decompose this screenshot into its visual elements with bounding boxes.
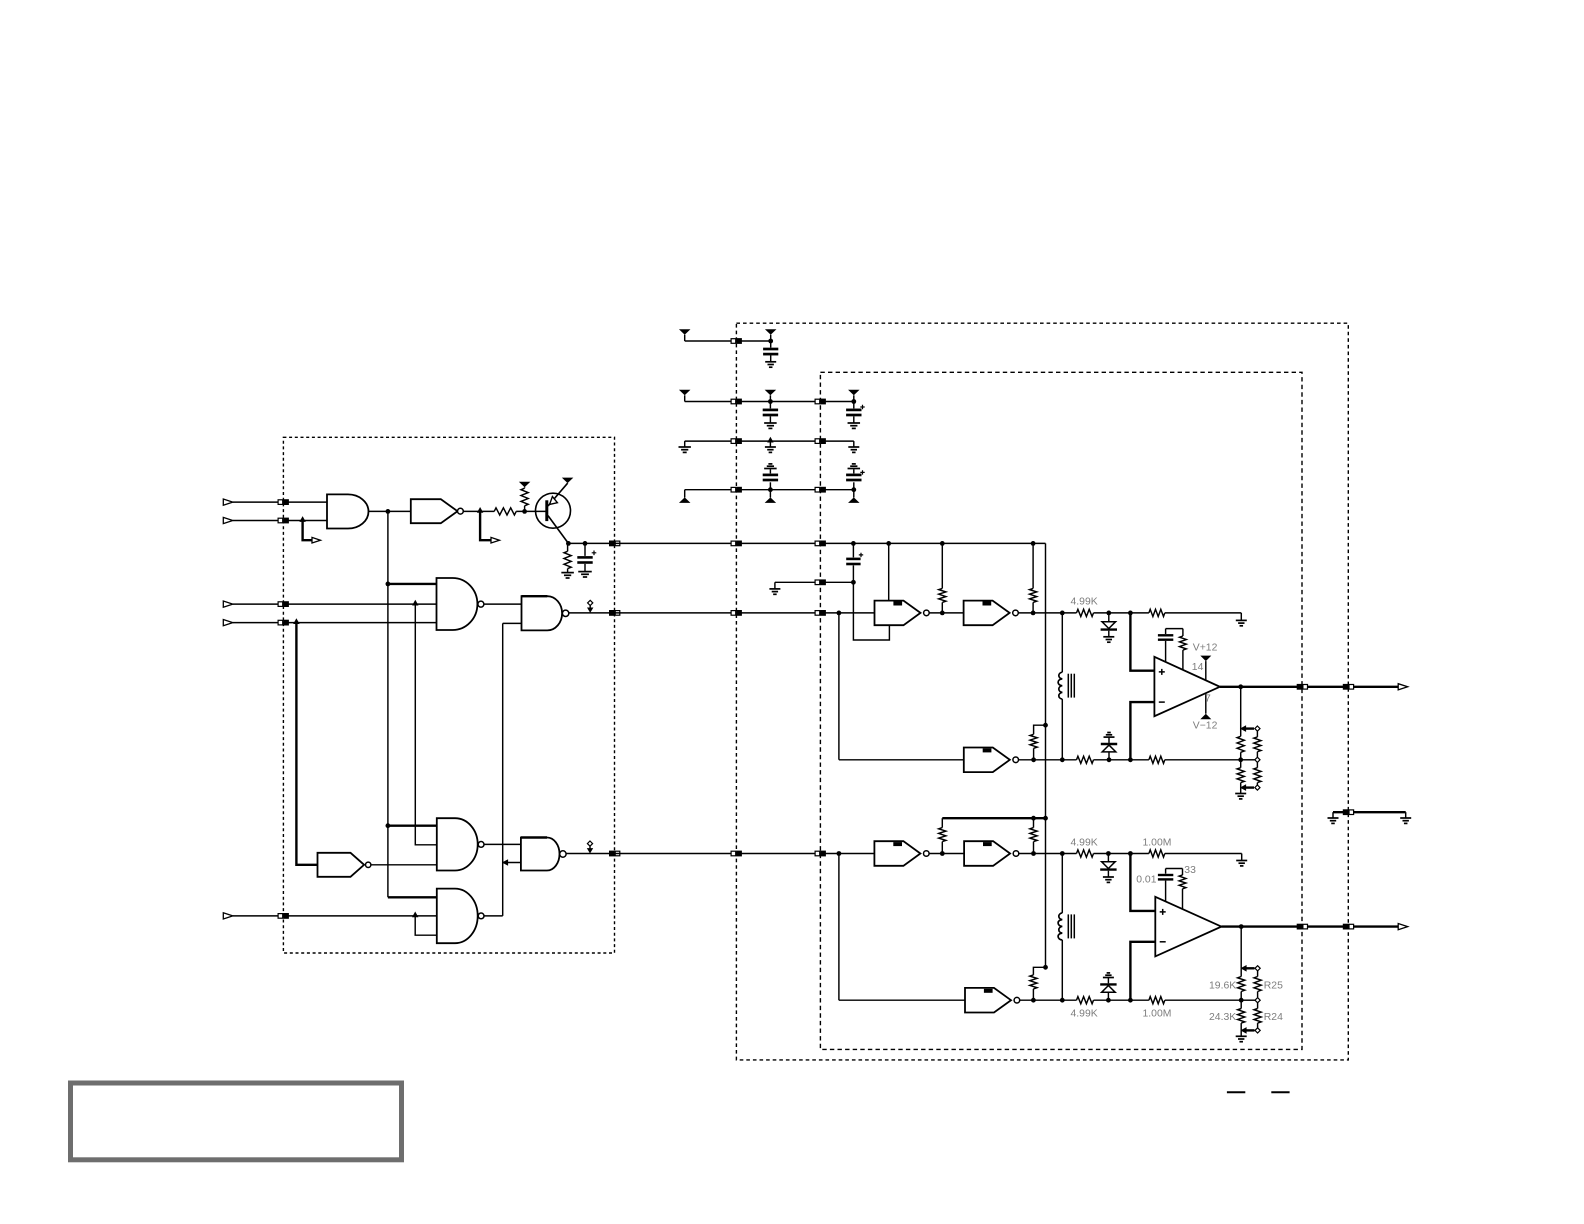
node R23 top junction [1043,965,1048,970]
node output2 junction [1239,924,1244,929]
resistor R3 to ground [564,543,571,572]
wire U12 output [1019,759,1077,761]
wire U8 out to inner [736,853,820,855]
dashed box: digital logic section [283,437,614,953]
tap stub top ch2 [1247,966,1261,971]
resistor R9 [1237,729,1244,760]
wire vertical from AND output [387,511,389,897]
border connector IN2 [278,518,289,524]
resistor R1 (base) [494,508,516,515]
node ch1 input junction [837,611,842,616]
node diode4 junction [1106,998,1111,1003]
resistor R17 (pull-up) [1030,818,1037,856]
schmitt inverter U12 [964,748,1019,773]
tap arrow bottom ch1 [1240,784,1246,791]
wire AND output [369,510,411,512]
wire rail corner down [1045,543,1047,818]
wire op-amp2 output [1221,925,1398,927]
wire U4 out between boxes [615,612,737,614]
resistor R24 [1254,1003,1261,1028]
wire U9 top pin [886,541,891,601]
wire U7 output up to U4 [503,623,522,916]
resistor R18 4.99K [1077,850,1094,857]
wire to op-amp2 plus [1130,854,1155,911]
svg-text:V+12: V+12 [1193,643,1218,654]
resistor R27 1.00M [1149,997,1165,1004]
input port arrow IN5 [223,913,233,919]
label 1.00M ch2 upper [1143,838,1172,849]
border connector row1 [731,338,742,344]
border connector row3 inner [815,438,826,444]
label 4.99K ch2 lower [1071,1008,1098,1019]
inverter U5 [318,853,371,877]
wire U3 to U4 [484,603,522,605]
wire U9 to U10 [929,612,963,614]
tap arrow top ch2 [1240,965,1246,972]
wire U14 output [1019,853,1077,855]
node row4 right junction [851,487,856,492]
border connector out2 inner [1297,924,1308,930]
node row4 mid junction [768,487,773,492]
wire U6 input1 [386,823,437,828]
NAND gate U8 [521,838,566,871]
node diode2 junction [1107,757,1112,762]
node R13 top junction [1043,723,1048,728]
label 1.00M ch2 lower [1143,1008,1172,1019]
ground row3 mid [765,441,776,452]
wire bold rail ch2 [942,816,1048,821]
wire to U8 input2 [503,862,521,864]
border connector rail out [609,541,620,547]
power V+ row2 left [679,390,691,402]
ground below C2 [765,362,776,367]
wire cross-couple down [415,604,437,845]
diode D3 [1100,854,1116,877]
node emitter junction [566,541,571,546]
svg-text:7: 7 [1205,694,1211,705]
wire op-amp1 output [1220,686,1398,688]
wire IN1 to AND gate [233,501,327,503]
resistor R14 4.99K [1077,756,1094,763]
junction arrow after inverter [477,507,483,513]
wire IN2 to AND gate [233,520,327,522]
ground reference [769,582,780,594]
inductor L2 [1058,851,1074,1003]
border connector out1 inner [1297,684,1308,690]
power V- row4 mid [765,490,777,503]
wire R6 to node [1094,612,1149,614]
wire row1 [685,340,771,342]
resistor R25 [1254,971,1261,997]
node base junction [522,509,527,514]
svg-text:19.6K: 19.6K [1209,980,1236,991]
border connector U8 inner [815,851,826,857]
wire R26 to node [1094,999,1149,1001]
node mid tap ch1 [1238,757,1243,762]
wire row2 [685,401,854,403]
border connector row4 outer [731,487,742,493]
resistor R7 [1149,609,1165,616]
ground below R11 [1235,788,1246,799]
tap stub top ch1 [1246,726,1260,731]
svg-text:4.99K: 4.99K [1071,838,1098,849]
svg-text:1.00M: 1.00M [1143,1008,1172,1019]
capacitor C1 (polarized) [577,543,596,571]
wire to op-amp1 minus [1130,702,1154,760]
border connector ground tie [1343,809,1354,815]
ground below R3 [561,573,574,578]
NAND gate U7 [437,889,484,944]
wire ch1 input [820,612,874,614]
border connector U8 outer [731,851,742,857]
wire rail inside [820,542,1045,544]
wire U10 output [1018,612,1076,614]
power V+ row1 mid [765,329,777,341]
resistor R8 (comp) [1180,629,1187,670]
wire ground reference [775,581,854,583]
wire U4 out to inner [736,612,820,614]
label 4.99K ch2 upper [1071,838,1098,849]
label 4.99K ch1 [1071,596,1098,607]
resistor R19 1.00M [1149,850,1165,857]
border connector gnd ref [815,579,826,585]
border connector row2 inner [815,399,826,405]
AND gate U1 [327,494,369,528]
wire U8 output [566,853,614,855]
label 19.6K [1209,980,1236,991]
node row2 mid junction [768,399,773,404]
node op-amp2 minus junction [1128,998,1133,1003]
revision dash marks [1227,1091,1290,1093]
schmitt inverter U16 [965,988,1020,1013]
wire row4 [685,489,854,491]
wire R14 to node [1094,759,1149,761]
power V- row4 right [848,490,860,503]
inverter U2 [411,499,464,523]
schmitt inverter U13 [874,841,929,866]
label 0.01 [1136,875,1156,886]
resistor R15 [1149,756,1165,763]
label 33 [1184,865,1196,876]
NAND gate U3 [437,578,484,630]
ground below D1 [1103,637,1114,642]
ground below R22 [1236,1030,1247,1041]
node ch2 input junction [837,851,842,856]
border connector IN3 [278,601,289,607]
dashed box: inner analog section [820,372,1302,1049]
tap stub bottom ch1 [1246,785,1260,790]
capacitor C2 [763,341,778,362]
input port arrow IN4 [223,620,233,626]
transistor Q1 [536,483,571,543]
wire R15 to tap [1165,759,1241,761]
wire U7 output [484,915,503,917]
wire U7 input1 [388,896,437,898]
border connector IN4 [278,620,289,626]
ground above D4 [1103,973,1114,978]
wire rail to inner box [736,542,820,544]
label V+12 [1193,643,1218,654]
node row2 right junction [851,399,856,404]
wire ch2 lower input [839,854,965,1001]
op-amp U11 [1154,657,1220,716]
wire output1 down [1240,687,1242,729]
wire to op-amp2 minus [1130,942,1155,1000]
node row1 junction [768,339,773,344]
output port arrow OUT2 [1398,924,1408,930]
junction arrow row3 mid [767,437,773,443]
junction arrow on IN2 [299,516,305,522]
border connector IN1 [278,499,289,505]
wire R27 to tap [1165,999,1241,1001]
junction arrow to U8 [502,859,508,866]
net marker on U8 output [587,841,593,854]
wire IN5 to U7 [233,915,437,917]
border connector out2 outer [1343,924,1354,930]
wire U6 to U8 [484,843,521,845]
tap diamond mid ch2 [1241,998,1260,1003]
resistor R23 (pull-up) [1030,967,1046,1002]
inductor L1 [1058,611,1074,763]
border connector U4 out [609,610,620,616]
ground below C3 [764,423,777,428]
svg-text:R24: R24 [1264,1012,1283,1023]
svg-text:14: 14 [1192,662,1204,673]
stub arrow from IN2 [303,521,321,543]
label V-12 [1193,720,1218,731]
border connector rail outer [731,541,742,547]
title block rectangle [71,1083,402,1160]
tap stub bottom ch2 [1247,1028,1261,1033]
wire U13 to U14 [929,853,964,855]
op-amp U15 [1155,897,1221,957]
label pin 7 [1205,694,1211,705]
output port arrow OUT1 [1398,684,1408,690]
node cap junction [583,541,588,546]
svg-text:24.3K: 24.3K [1209,1012,1236,1023]
power V+ row1 left [679,329,691,341]
power V- row4 left [679,490,691,503]
NAND gate U6 [437,818,484,870]
resistor R16 (pull-up) [939,818,946,856]
svg-text:4.99K: 4.99K [1071,596,1098,607]
border connector U8 out [609,851,620,857]
resistor R6 4.99K [1077,609,1094,616]
resistor R21 19.6K [1238,968,1245,1000]
ground above D2 [1104,733,1115,738]
wire U5 output [371,864,437,866]
resistor R20 33 [1179,869,1186,910]
border connector U4 inner [815,610,826,616]
capacitor C3 [763,402,778,423]
wire U16 output [1020,999,1077,1001]
wire comp joiner [1166,628,1183,630]
wire inverter to resistor [463,510,494,512]
wire comp joiner ch2 [1166,868,1183,870]
border connector out1 outer [1343,684,1354,690]
ground below C1 [578,572,592,577]
ground tie right [1400,812,1411,823]
wire R18 to node [1094,853,1149,855]
wire IN3 to NAND [233,603,437,605]
resistor R11 [1237,760,1244,788]
resistor R22 24.3K [1238,1000,1245,1030]
svg-text:33: 33 [1184,865,1196,876]
ground row3 left [679,441,691,452]
ground above C5 [764,464,777,469]
wire ch1 lower input [839,613,964,760]
diode D2 [1101,737,1117,760]
input port arrow IN3 [223,601,233,607]
stub IN5 to U7 third input [415,916,437,935]
wire resistor to transistor base [516,510,545,512]
wire R7 to ground [1165,613,1242,620]
schmitt inverter U14 [964,841,1019,866]
junction arrow IN3 [412,600,418,606]
border connector rail inner [815,541,826,547]
border connector row3 outer [731,438,742,444]
node op-amp2 plus junction [1128,851,1133,856]
capacitor C8 (comp) [1158,629,1173,662]
input port arrow IN1 [223,499,233,505]
wire rail between boxes [615,542,737,544]
capacitor C6 (polarized) [846,469,865,490]
wire U9 feedback loop [853,582,889,640]
label 24.3K [1209,1012,1236,1023]
wire row3 [685,440,854,442]
wire U8 out between boxes [615,853,737,855]
node gnd ref junction [851,580,856,585]
wire NAND U3 input1 [386,582,437,587]
resistor R12 [1254,762,1261,785]
svg-text:R25: R25 [1264,980,1283,991]
svg-text:1.00M: 1.00M [1143,838,1172,849]
ground below C4 [848,423,861,428]
wire output2 down [1240,927,1242,969]
label R25 [1264,980,1283,991]
wire rail ch2 corner [1045,818,1047,967]
wire to op-amp1 plus [1130,613,1154,671]
schmitt inverter U9 [875,601,930,626]
node diode1 junction [1106,611,1111,616]
capacitor C5 [763,469,778,490]
tap diamond mid ch1 [1241,757,1260,762]
ground right of R7 [1236,620,1247,625]
ground below D3 [1103,877,1114,882]
schmitt inverter U10 [964,601,1019,626]
power V+ above Q1 [562,478,574,484]
wire U4 output [569,612,615,614]
wire rail to border [568,542,614,544]
label pin 14 [1192,662,1204,673]
power V-12 pin 7 [1200,693,1211,719]
node mid tap ch2 [1239,998,1244,1003]
tap arrow top ch1 [1240,725,1246,732]
node A junction [386,509,391,514]
capacitor C9 0.01 [1158,869,1173,902]
resistor R2 (pull-up) [521,488,528,511]
power V+ row2 right [848,390,860,402]
junction arrow IN5 [412,912,418,918]
capacitor C4 (polarized) [846,402,865,423]
power V+ row2 mid [765,390,777,402]
svg-text:0.01: 0.01 [1136,875,1156,886]
svg-text:4.99K: 4.99K [1071,1008,1098,1019]
node op-amp1 minus junction [1128,757,1133,762]
ground above C6 [848,464,861,469]
ground tie left [1328,812,1339,823]
wire ground tie [1333,811,1406,813]
ground right of R19 [1236,861,1247,866]
dashed box: outer analog section [736,323,1348,1060]
tap arrow bottom ch2 [1240,1027,1246,1034]
wire to lower inverter [296,623,317,865]
capacitor C7 (polarized) [846,543,863,582]
wire IN4 to NAND [233,622,437,624]
resistor R26 4.99K [1077,997,1094,1004]
power V+12 pin 14 [1200,656,1211,681]
net marker on U4 output [587,600,593,613]
input port arrow IN2 [223,517,233,523]
diode D1 [1101,613,1117,637]
ground row3 right [848,441,859,452]
border connector U4 outer [731,610,742,616]
border connector row2 outer [731,399,742,405]
label R24 [1264,1012,1283,1023]
node diode3 junction [1106,851,1111,856]
wire R19 to ground [1165,854,1242,861]
resistor R10 [1254,731,1261,757]
stub arrow below inverter output [480,512,499,543]
border connector IN5 [278,913,289,919]
power V+ above R2 [519,482,531,488]
diode D4 [1100,978,1116,1001]
resistor R4 (pull-up) [939,541,946,615]
border connector row4 inner [815,487,826,493]
resistor R5 (pull-up) [1030,541,1037,615]
node output1 junction [1238,684,1243,689]
node rail cap junction [851,541,856,546]
svg-text:V−12: V−12 [1193,720,1218,731]
junction arrow IN4 [293,618,299,624]
node op-amp1 plus junction [1128,611,1133,616]
wire ch2 input [820,853,874,855]
resistor R13 (pull-up) [1030,725,1046,762]
NAND gate U4 [522,596,569,630]
